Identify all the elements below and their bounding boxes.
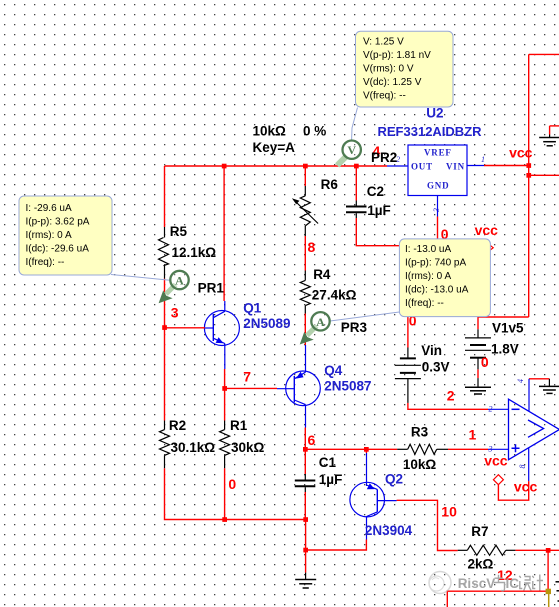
- wire vcc rail to V1v5 top: [478, 317, 529, 329]
- svg-text:VREF: VREF: [424, 148, 452, 158]
- svg-text:2N5089: 2N5089: [243, 316, 290, 331]
- wire top right ground feed: [550, 125, 559, 127]
- svg-text:I(p-p): 3.62 pA: I(p-p): 3.62 pA: [26, 217, 90, 228]
- svg-text:I(p-p): 740 pA: I(p-p): 740 pA: [405, 258, 466, 269]
- leader line tooltip1 to PR1: [111, 275, 170, 281]
- capacitor C1: [295, 455, 343, 492]
- transistor Q2: [350, 449, 413, 539]
- svg-text:C1: C1: [319, 455, 337, 470]
- svg-text:10: 10: [441, 504, 457, 520]
- svg-text:C2: C2: [367, 184, 384, 199]
- svg-text:R2: R2: [169, 418, 186, 433]
- wire C2 bottom to node 0: [356, 218, 399, 246]
- svg-text:30.1kΩ: 30.1kΩ: [171, 440, 216, 455]
- junction bottom rail at R1: [222, 517, 227, 522]
- wire vcc junction to right edge: [529, 174, 559, 176]
- voltage reference U2 REF3312AIDBZR: [378, 106, 486, 217]
- wire R4 bottom to Q4 collector: [304, 314, 306, 346]
- svg-text:R1: R1: [230, 418, 248, 433]
- junction lower at Q2 emitter net: [303, 548, 308, 553]
- probe PR3 (current): [300, 312, 368, 344]
- wire node 6 down to C1: [304, 449, 306, 474]
- wire node 7 down to R1: [224, 388, 226, 420]
- wire bottom rail to lower junction: [305, 520, 307, 551]
- svg-text:6: 6: [308, 432, 316, 448]
- junction vcc rail at right branch: [526, 173, 531, 178]
- svg-text:1: 1: [469, 427, 477, 443]
- wire olive net down from node 12: [548, 591, 550, 607]
- ground at op-amp top pin: [539, 379, 559, 394]
- svg-text:A: A: [316, 315, 325, 329]
- wire node 7 to Q4 base: [225, 387, 277, 389]
- measurement tooltip 2 (PR3): [399, 239, 490, 317]
- potentiometer R6: [253, 124, 339, 237]
- measurement tooltip 3 (PR2): [356, 31, 454, 107]
- junction top wire at pot branch: [303, 164, 308, 169]
- svg-text:1: 1: [481, 155, 485, 164]
- junction node 6: [303, 447, 308, 452]
- svg-text:12.1kΩ: 12.1kΩ: [172, 245, 217, 260]
- probe PR2 (voltage): [337, 141, 397, 166]
- measurement tooltip 1 (PR1): [19, 196, 112, 275]
- svg-text:vcc: vcc: [514, 479, 538, 495]
- svg-text:3: 3: [171, 305, 179, 321]
- svg-text:V: V: [347, 143, 356, 157]
- svg-text:Q4: Q4: [324, 363, 343, 378]
- svg-text:2N5087: 2N5087: [324, 379, 371, 394]
- svg-text:4: 4: [516, 379, 525, 383]
- wire C2 top from junction: [355, 166, 357, 201]
- battery Vin: [395, 343, 450, 403]
- svg-text:0.3V: 0.3V: [422, 360, 450, 375]
- ground below Q2 emitter net: [295, 573, 316, 588]
- svg-text:8: 8: [518, 465, 527, 469]
- resistor R2: [160, 418, 216, 468]
- svg-text:GND: GND: [427, 181, 449, 191]
- svg-text:2N3904: 2N3904: [365, 523, 413, 538]
- svg-text:PR1: PR1: [198, 281, 225, 296]
- wire U2 VIN to vcc rail: [484, 165, 529, 167]
- wire right junction down to olive node: [547, 550, 549, 591]
- wire lower junction to Q2 emitter: [306, 540, 367, 551]
- capacitor C2: [346, 184, 391, 218]
- svg-text:Key=A: Key=A: [253, 140, 296, 155]
- probe PR1 (current): [159, 271, 225, 303]
- leader line tooltip3 to PR2: [352, 108, 358, 140]
- svg-text:IC: IC: [506, 576, 520, 591]
- wire node 6 horizontal to R3: [305, 448, 397, 450]
- svg-text:2kΩ: 2kΩ: [468, 557, 494, 572]
- wire Q1 collector drop: [223, 166, 225, 301]
- watermark stamp logo: [429, 572, 451, 594]
- battery V1v5: [465, 321, 524, 370]
- svg-text:1µF: 1µF: [319, 472, 343, 487]
- svg-text:10kΩ: 10kΩ: [253, 124, 287, 139]
- svg-text:Q1: Q1: [243, 301, 262, 316]
- svg-text:7: 7: [243, 369, 251, 385]
- resistor R1: [220, 418, 265, 468]
- wire top rail from left corner to U2 OUT: [165, 165, 388, 167]
- junction node 3: [162, 325, 167, 330]
- ground below V1v5: [465, 378, 491, 394]
- svg-text:8: 8: [308, 239, 316, 255]
- wire left rail R5 to node 3: [164, 279, 166, 328]
- svg-text:V(dc): 1.25 V: V(dc): 1.25 V: [363, 77, 422, 88]
- wire pot R6 top feed: [304, 166, 306, 186]
- svg-text:I(freq): --: I(freq): --: [26, 257, 65, 268]
- svg-text:A: A: [175, 274, 184, 288]
- wire op-amp top pin to ground: [529, 378, 549, 380]
- svg-text:10kΩ: 10kΩ: [403, 457, 437, 472]
- svg-text:PR3: PR3: [341, 320, 368, 335]
- svg-text:U2: U2: [426, 106, 443, 121]
- wire vcc rail vertical: [528, 54, 530, 317]
- op-amp U? (partial at right edge): [488, 379, 559, 481]
- svg-text:I(rms): 0 A: I(rms): 0 A: [26, 230, 72, 241]
- svg-text:V1v5: V1v5: [492, 321, 524, 336]
- svg-text:0: 0: [481, 354, 489, 370]
- svg-text:vcc: vcc: [484, 453, 508, 469]
- svg-text:1µF: 1µF: [367, 203, 391, 218]
- svg-text:I(rms): 0 A: I(rms): 0 A: [405, 271, 451, 282]
- junction olive node 12: [546, 589, 551, 594]
- svg-text:I(dc): -13.0 uA: I(dc): -13.0 uA: [405, 285, 469, 296]
- resistor R3: [397, 425, 448, 473]
- wire U2 GND down: [437, 217, 439, 240]
- svg-text:Vin: Vin: [421, 343, 442, 358]
- wire node 8 pot to R4: [304, 236, 306, 271]
- svg-text:I(freq): --: I(freq): --: [405, 298, 444, 309]
- svg-text:R6: R6: [321, 177, 339, 192]
- svg-text:I(dc): -29.6 uA: I(dc): -29.6 uA: [26, 244, 90, 255]
- svg-text:R5: R5: [170, 224, 188, 239]
- resistor R7: [458, 524, 516, 572]
- wire left rail down to R5: [164, 166, 166, 227]
- wire R7 to right junction: [515, 549, 559, 551]
- wire node 12 horizontal: [447, 591, 548, 607]
- svg-text:OUT: OUT: [411, 162, 433, 172]
- wire vcc rail top to edge: [529, 53, 559, 55]
- wire Vin bottom to op-amp minus: [408, 403, 488, 409]
- wire lower junction to ground: [305, 550, 307, 573]
- wire left rail node 3 to R2: [164, 328, 166, 421]
- wire Q2 base to node 10: [397, 500, 458, 550]
- leader line tooltip2 to PR3: [330, 312, 399, 321]
- ground top right: [539, 126, 559, 146]
- junction top wire at C2 branch: [354, 164, 359, 169]
- svg-text:I: -29.6 uA: I: -29.6 uA: [26, 203, 72, 214]
- wire C1 bottom to bottom rail: [304, 492, 306, 520]
- svg-text:V: 1.25 V: V: 1.25 V: [363, 37, 404, 48]
- svg-text:VIN: VIN: [446, 162, 465, 172]
- svg-text:0: 0: [228, 476, 236, 492]
- svg-text:30kΩ: 30kΩ: [231, 440, 265, 455]
- wire op-amp bottom pin to vcc diamond: [498, 481, 528, 500]
- svg-text:RiscV: RiscV: [458, 576, 496, 591]
- svg-text:vcc: vcc: [475, 222, 499, 238]
- wire V1v5 lower stub red part: [477, 369, 479, 378]
- svg-text:2: 2: [489, 405, 493, 414]
- partial ground at bottom right edge: [556, 582, 559, 601]
- wire R3 to op-amp plus: [448, 448, 488, 450]
- svg-text:1.8V: 1.8V: [491, 342, 519, 357]
- svg-text:V(rms): 0 V: V(rms): 0 V: [363, 64, 414, 75]
- junction R7 right: [546, 548, 551, 553]
- wire R1 bottom to bottom rail: [224, 468, 226, 519]
- svg-text:V(p-p): 1.81 nV: V(p-p): 1.81 nV: [363, 50, 431, 61]
- junction vcc rail at VIN: [526, 163, 531, 168]
- svg-text:R7: R7: [471, 524, 488, 539]
- junction node 6 at Q2 collector: [364, 447, 369, 452]
- transistor Q4: [277, 345, 371, 428]
- svg-text:V(freq): --: V(freq): --: [363, 91, 406, 102]
- svg-text:R4: R4: [313, 267, 331, 282]
- svg-text:vcc: vcc: [509, 145, 533, 161]
- vcc diamond connector: [493, 475, 503, 485]
- svg-text:27.4kΩ: 27.4kΩ: [312, 288, 357, 303]
- wire node 0 to Vin top: [407, 317, 409, 348]
- svg-text:2: 2: [447, 388, 455, 404]
- watermark text RiscV与IC设计: [458, 575, 543, 592]
- wire Q1 emitter to node 7: [224, 369, 226, 388]
- svg-text:R3: R3: [411, 425, 429, 440]
- wire left rail R2 bottom to bottom rail corner: [165, 468, 306, 519]
- svg-text:I: -13.0 uA: I: -13.0 uA: [405, 244, 451, 255]
- transistor Q1: [165, 301, 291, 370]
- junction bottom rail at C1: [303, 517, 308, 522]
- svg-text:3: 3: [432, 208, 441, 213]
- resistor R5: [159, 224, 217, 279]
- resistor R4: [300, 267, 356, 314]
- svg-text:PR2: PR2: [371, 150, 397, 165]
- wire Q4 emitter to node 6: [304, 428, 306, 450]
- svg-text:Q2: Q2: [385, 472, 403, 487]
- svg-text:0 %: 0 %: [303, 124, 326, 139]
- dangling wire arrow right of tooltip 2: [489, 245, 493, 252]
- junction top wire at Q1 branch: [222, 164, 227, 169]
- svg-text:REF3312AIDBZR: REF3312AIDBZR: [378, 124, 483, 139]
- junction node 7: [222, 386, 227, 391]
